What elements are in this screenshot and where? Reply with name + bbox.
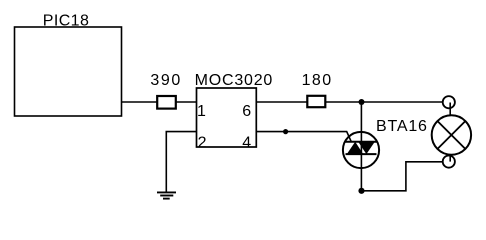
- triac Q1 body: [343, 132, 379, 168]
- wire R2 to top terminal: [325, 101, 442, 103]
- wire U1 pin2 to ground: [166, 132, 196, 192]
- lamp LA1: [432, 115, 471, 154]
- terminal bottom: [443, 156, 455, 168]
- junction on gate wire: [283, 129, 288, 134]
- resistor R2: [307, 96, 325, 107]
- wire R1 to U1 pin1: [176, 101, 197, 103]
- wire triac MT2-MT1 vertical: [360, 102, 362, 191]
- svg-text:390: 390: [150, 72, 182, 89]
- wire lamp bottom lead: [449, 155, 451, 162]
- wire U1 pin6 to R2: [256, 101, 307, 103]
- triac Q1 symbol: [346, 142, 377, 154]
- junction triac bottom node: [358, 188, 364, 194]
- resistor R1: [157, 96, 176, 109]
- terminal top: [443, 96, 455, 108]
- svg-text:6: 6: [242, 103, 251, 120]
- wire PIC18 to R1: [122, 101, 158, 103]
- svg-text:180: 180: [302, 72, 333, 89]
- wire bottom terminal to triac: [362, 162, 443, 191]
- svg-text:BTA16: BTA16: [376, 118, 428, 135]
- svg-text:2: 2: [198, 135, 207, 152]
- junction triac top node: [359, 99, 365, 105]
- svg-text:MOC3020: MOC3020: [195, 72, 274, 89]
- svg-text:4: 4: [242, 135, 251, 152]
- wire U1 pin4 to triac gate: [256, 132, 351, 143]
- wire lamp top lead: [449, 103, 451, 116]
- svg-text:PIC18: PIC18: [43, 13, 89, 30]
- svg-text:1: 1: [197, 103, 206, 120]
- opto-isolator U1 MOC3020: [197, 88, 257, 147]
- ground: [157, 192, 176, 198]
- block U2 PIC18: [15, 27, 122, 116]
